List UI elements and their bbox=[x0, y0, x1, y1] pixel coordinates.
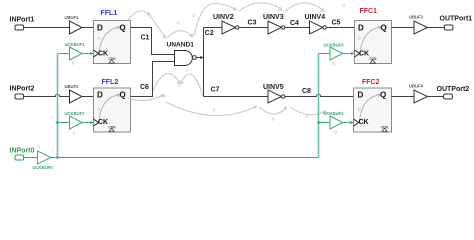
wire C4 bbox=[285, 27, 310, 29]
clock buffer UCKBUF3 bbox=[330, 47, 343, 60]
svg-text:FFL1: FFL1 bbox=[101, 10, 118, 17]
inverter UINV4 bbox=[310, 21, 327, 34]
svg-text:UINV4: UINV4 bbox=[305, 14, 326, 21]
wire FFC1 Q to UBUF3 bbox=[392, 27, 415, 29]
flow arc hops top row bbox=[128, 3, 324, 38]
svg-text:FFL2: FFL2 bbox=[102, 79, 119, 86]
junction bbox=[200, 56, 203, 60]
svg-text:C1: C1 bbox=[141, 35, 150, 42]
svg-text:CK: CK bbox=[359, 51, 369, 58]
wire INPort0 to UCKBUF0 bbox=[24, 157, 38, 159]
flow arc under FFL2 Q wire bbox=[128, 95, 164, 101]
output port OUTPort1 symbol bbox=[444, 25, 453, 30]
input port INPort1 symbol bbox=[15, 25, 24, 30]
svg-text:C2: C2 bbox=[205, 30, 214, 37]
svg-text:D: D bbox=[358, 90, 364, 99]
svg-text:UINV5: UINV5 bbox=[263, 84, 284, 91]
svg-text:OUTPort2: OUTPort2 bbox=[437, 86, 470, 93]
svg-text:UBUF2: UBUF2 bbox=[65, 84, 80, 89]
flow arcs nand area bbox=[153, 74, 204, 96]
svg-text:Q: Q bbox=[381, 23, 387, 32]
wire C6: FFL2 Q to UNAND1 input B bbox=[131, 62, 175, 97]
svg-text:UNAND1: UNAND1 bbox=[167, 41, 195, 48]
wire UBUF3 to OUTPort1 bbox=[428, 27, 445, 29]
svg-text:FFC2: FFC2 bbox=[362, 79, 380, 86]
input port INPort2 symbol bbox=[15, 94, 24, 99]
wire UCKBUF2 to FFL2 CK bbox=[82, 121, 94, 125]
svg-text:C3: C3 bbox=[248, 19, 257, 26]
svg-text:UINV2: UINV2 bbox=[213, 14, 234, 21]
svg-text:D: D bbox=[97, 90, 103, 99]
wire UBUF4 to OUTPort2 bbox=[428, 96, 444, 98]
svg-text:C4: C4 bbox=[290, 20, 299, 27]
clock buffer UCKBUF0 bbox=[38, 151, 52, 164]
wire trunk to UCKBUF1 bbox=[58, 53, 70, 55]
buffer UBUF3 bbox=[414, 21, 428, 34]
wire trunk to UCKBUF3 bbox=[319, 53, 331, 55]
wire C5 to FFC1 D bbox=[326, 27, 354, 29]
flip-flop FFC1 bbox=[355, 21, 392, 64]
wire C2 to UINV2 bbox=[204, 27, 223, 29]
flip-flop FFL1 bbox=[94, 21, 131, 64]
svg-text:C5: C5 bbox=[332, 19, 341, 26]
svg-text:Q: Q bbox=[120, 23, 126, 32]
svg-text:UBUF4: UBUF4 bbox=[409, 84, 424, 89]
wire C8 to FFC2 D with hop over clock trunk bbox=[285, 94, 354, 96]
wire UCKBUF1 to FFL1 CK bbox=[82, 52, 94, 56]
buffer UBUF1 bbox=[70, 21, 83, 34]
svg-text:INPort2: INPort2 bbox=[10, 85, 35, 92]
junction clock rail / left trunk bbox=[56, 156, 59, 159]
svg-text:CK: CK bbox=[98, 119, 108, 126]
wire C7: node to UINV5 bbox=[204, 96, 269, 98]
nand gate UNAND1 bbox=[175, 51, 197, 66]
svg-text:C6: C6 bbox=[140, 84, 149, 91]
svg-text:UINV3: UINV3 bbox=[263, 14, 284, 21]
clock buffer UCKBUF1 bbox=[70, 47, 83, 60]
wire clock net bottom rail bbox=[51, 157, 319, 159]
wire INPort1 to UBUF1 bbox=[24, 27, 70, 29]
wire UNAND1 output to node bbox=[196, 57, 203, 59]
svg-text:Q: Q bbox=[120, 90, 126, 99]
inverter UINV3 bbox=[268, 21, 285, 34]
wire trunk to UCKBUF4 bbox=[319, 122, 331, 124]
svg-text:INPort1: INPort1 bbox=[10, 16, 35, 23]
wire UCKBUF4 to FFC2 CK bbox=[343, 121, 354, 125]
flip-flop FFL2 bbox=[94, 88, 131, 132]
svg-text:C8: C8 bbox=[302, 88, 311, 95]
buffer UBUF2 bbox=[70, 90, 83, 103]
svg-text:C7: C7 bbox=[211, 86, 220, 93]
svg-text:UBUF3: UBUF3 bbox=[409, 15, 424, 20]
junction trunk / UCKBUF2 bbox=[56, 121, 59, 124]
svg-text:D: D bbox=[97, 23, 103, 32]
inverter UINV5 bbox=[268, 90, 285, 103]
clock buffer UCKBUF4 bbox=[330, 116, 343, 129]
buffer UBUF4 bbox=[414, 90, 428, 103]
clock buffer UCKBUF2 bbox=[70, 116, 83, 129]
output port OUTPort2 symbol bbox=[444, 94, 453, 99]
svg-text:INPort0: INPort0 bbox=[10, 147, 35, 154]
flip-flop FFC2 bbox=[354, 88, 392, 132]
wire trunk to UCKBUF2 bbox=[58, 122, 70, 124]
wire FFC2 Q to UBUF4 bbox=[392, 96, 415, 98]
svg-text:Q: Q bbox=[380, 90, 386, 99]
svg-text:OUTPort1: OUTPort1 bbox=[440, 16, 473, 23]
flow arcs lower row bbox=[166, 102, 326, 116]
svg-text:FFC1: FFC1 bbox=[360, 8, 378, 15]
input port INPort0 symbol bbox=[15, 155, 24, 160]
wire C3 bbox=[239, 27, 268, 29]
junction trunk / UCKBUF4 bbox=[317, 121, 320, 124]
svg-text:CK: CK bbox=[359, 119, 369, 126]
wire INPort2 to UBUF2 with hop over clock trunk bbox=[24, 94, 70, 96]
svg-text:UCKBUF3: UCKBUF3 bbox=[324, 43, 345, 48]
wire C1: FFL1 Q to UNAND1 input A bbox=[131, 28, 175, 55]
svg-text:D: D bbox=[358, 23, 364, 32]
svg-text:UCKBUF4: UCKBUF4 bbox=[324, 111, 345, 116]
svg-text:UCKBUF1: UCKBUF1 bbox=[65, 42, 86, 47]
wire vertical C2/C7 split bbox=[203, 28, 205, 97]
svg-text:UCKBUF2: UCKBUF2 bbox=[65, 111, 86, 116]
svg-text:CK: CK bbox=[98, 51, 108, 58]
wire UBUF2 to FFL2 D bbox=[82, 96, 94, 98]
svg-text:UCKBUF0: UCKBUF0 bbox=[33, 165, 54, 170]
wire UBUF1 to FFL1 D bbox=[82, 27, 94, 29]
wire clock trunk left bbox=[57, 54, 59, 158]
svg-text:UBUF1: UBUF1 bbox=[65, 15, 80, 20]
wire clock trunk right bbox=[318, 54, 320, 158]
wire UCKBUF3 to FFC1 CK bbox=[343, 52, 355, 56]
inverter UINV2 bbox=[222, 21, 239, 34]
